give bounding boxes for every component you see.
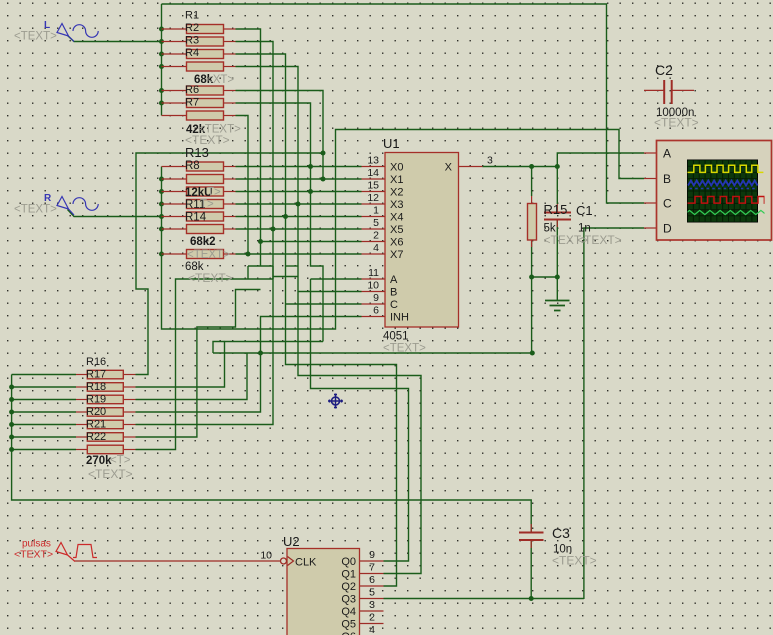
resistor R6 xyxy=(187,99,224,108)
svg-text:<TEXT>: <TEXT> xyxy=(552,554,597,568)
svg-text:X: X xyxy=(445,162,453,174)
pin stub U1 left xyxy=(362,191,386,193)
pin stub U1 left xyxy=(362,228,386,230)
wire ground distribution xyxy=(213,352,532,354)
pin stub bank3 right xyxy=(124,386,136,388)
pin stub U1 left xyxy=(362,178,386,180)
pin stub bank3 left xyxy=(76,449,87,451)
wire bank3 bus row y=387 xyxy=(12,386,76,388)
wire bank2 bus to scope B xyxy=(162,130,645,330)
wire bank3 bus row y=449.5 xyxy=(12,449,76,451)
resistor R3 xyxy=(187,50,224,59)
pin stub U1 X output xyxy=(459,166,483,168)
junction bank3 bus xyxy=(9,435,14,440)
pin stub bank2 left xyxy=(162,191,187,193)
junction (323,153) xyxy=(321,151,326,156)
svg-text:B: B xyxy=(663,172,671,186)
svg-text:14: 14 xyxy=(367,167,379,179)
svg-text:<TEXT>: <TEXT> xyxy=(654,116,699,130)
svg-text:X7: X7 xyxy=(390,249,403,261)
pin stub bank2 left xyxy=(162,253,187,255)
wire top bus to scope C xyxy=(162,4,645,203)
svg-text:R21: R21 xyxy=(86,419,106,431)
svg-text:R13: R13 xyxy=(185,145,209,160)
svg-text:3: 3 xyxy=(487,155,493,167)
resistor R18 xyxy=(87,395,123,404)
pin stub U2 right xyxy=(360,610,384,612)
pin stub bank3 right xyxy=(124,399,136,401)
svg-text:CLK: CLK xyxy=(295,557,317,569)
wire drop 273 xyxy=(272,266,274,279)
svg-text:<TEXT>: <TEXT> xyxy=(88,467,133,481)
junction bank2 bus xyxy=(159,202,164,207)
svg-text:X4: X4 xyxy=(390,212,403,224)
pin stub C2 left xyxy=(644,89,664,91)
svg-text:R3: R3 xyxy=(185,35,199,47)
svg-text:12: 12 xyxy=(367,192,379,204)
resistor R19 xyxy=(87,408,123,417)
junction (285.5,216.5) xyxy=(283,214,288,219)
resistor R22 xyxy=(87,445,123,454)
clock bubble U2 xyxy=(281,558,287,564)
pin stub C3 bottom xyxy=(530,540,532,548)
svg-text:R15: R15 xyxy=(544,202,568,217)
wire R15 bottom xyxy=(531,240,533,277)
junction bank2 bus xyxy=(159,227,164,232)
resistor R16 xyxy=(87,370,123,379)
wire R1 to X6 down to jog xyxy=(236,29,261,266)
junction bank2 bus xyxy=(159,189,164,194)
wire bank1 left bus xyxy=(161,4,163,116)
pin stub C1 top xyxy=(556,204,558,212)
wire pulse generator to U2 CLK xyxy=(75,560,281,562)
junction (531.2,598.5) xyxy=(529,596,534,601)
svg-text:L: L xyxy=(44,20,50,31)
scope trace blue channel B xyxy=(688,181,758,186)
junction (260.5,241.5) xyxy=(258,239,263,244)
svg-text:R18: R18 xyxy=(86,381,106,393)
pin stub bank2 left xyxy=(162,203,187,205)
pin stub bank2 right xyxy=(224,228,236,230)
wire bank3 left bus down to C3 top xyxy=(12,375,532,533)
wire C1 bottom to ground xyxy=(556,220,558,301)
junction (310.5,166.5) xyxy=(308,164,313,169)
junction bank1 bus xyxy=(159,64,164,69)
wire X6 row xyxy=(261,241,362,243)
wire from generator R xyxy=(68,210,162,217)
svg-text:C3: C3 xyxy=(552,525,570,541)
wire R17 along row 341.5 xyxy=(136,342,324,388)
svg-text:R20: R20 xyxy=(86,406,106,418)
pin stub bank2 right xyxy=(224,191,236,193)
capacitor C2 xyxy=(664,80,672,104)
pin stub bank2 left xyxy=(162,216,187,218)
pin stub bank3 right xyxy=(124,449,136,451)
junction bank3 bus xyxy=(9,422,14,427)
junction (260.5,353) xyxy=(258,351,263,356)
pin stub bank3 left xyxy=(76,424,87,426)
junction (531.6,277) xyxy=(529,275,534,280)
pin stub U2 right xyxy=(360,623,384,625)
wire bank2 row to U1 pin y=179 xyxy=(236,178,362,180)
svg-text:X0: X0 xyxy=(390,162,403,174)
svg-text:R: R xyxy=(44,193,52,204)
resistor R4 xyxy=(187,62,224,71)
generator R symbol xyxy=(57,197,74,216)
wire jog X4/X3 staircase xyxy=(286,265,299,267)
pin stub bank3 right xyxy=(124,374,136,376)
svg-text:B: B xyxy=(390,287,397,299)
pin stub R15 bottom xyxy=(531,240,533,247)
svg-text:2: 2 xyxy=(369,612,375,624)
svg-text:270k: 270k xyxy=(86,455,112,467)
svg-text:5: 5 xyxy=(373,217,379,229)
svg-text:R7: R7 xyxy=(185,97,199,109)
wire bank3 bus row y=424.5 xyxy=(12,424,76,426)
scope trace green channel D xyxy=(687,210,769,214)
svg-text:X6: X6 xyxy=(390,237,403,249)
svg-text:13: 13 xyxy=(367,155,379,167)
wire A row xyxy=(311,278,362,280)
svg-text:C1: C1 xyxy=(576,203,593,218)
svg-text:R19: R19 xyxy=(86,394,106,406)
svg-text:Q4: Q4 xyxy=(341,606,356,618)
svg-text:Q0: Q0 xyxy=(341,556,356,568)
svg-text:<T>: <T> xyxy=(110,455,131,467)
svg-text:R1: R1 xyxy=(185,10,199,22)
svg-text:5: 5 xyxy=(369,587,375,599)
pin stub U1 left xyxy=(362,291,386,293)
svg-text:Q2: Q2 xyxy=(341,581,356,593)
svg-text:R8: R8 xyxy=(185,160,200,172)
svg-text:C: C xyxy=(390,299,398,311)
svg-text:<TEXT>: <TEXT> xyxy=(187,249,230,261)
junction (248,254) xyxy=(246,252,251,257)
wire bank2 row to U1 pin y=191.5 xyxy=(236,191,362,193)
svg-text:11: 11 xyxy=(368,267,379,279)
pin stub bank3 left xyxy=(76,386,87,388)
pin stub bank3 right xyxy=(124,424,136,426)
svg-text:X1: X1 xyxy=(390,174,403,186)
svg-text:7: 7 xyxy=(369,562,375,574)
pin stub U1 left xyxy=(362,241,386,243)
svg-text:C: C xyxy=(663,197,672,211)
svg-text:T>: T> xyxy=(207,187,221,199)
pin stub U2 right xyxy=(360,573,384,575)
svg-text:<TEXT>: <TEXT> xyxy=(14,31,57,43)
svg-text:68k2: 68k2 xyxy=(190,236,216,248)
pin stub R7 right xyxy=(224,115,236,117)
pin stub U1 left xyxy=(362,216,386,218)
pin stub U1 left xyxy=(362,303,386,305)
resistor R17 xyxy=(87,383,123,392)
svg-text:R16: R16 xyxy=(86,356,106,368)
svg-text:3: 3 xyxy=(369,599,375,611)
oscilloscope body xyxy=(657,141,772,241)
pin stub R3 right xyxy=(224,53,236,55)
wire bank3 bus row y=437 xyxy=(12,436,76,438)
svg-text:2: 2 xyxy=(373,230,379,242)
op-amp U1 4051 body xyxy=(385,153,459,328)
pin stub scope xyxy=(644,152,657,154)
pin stub R3 left xyxy=(162,53,187,55)
resistor R21 xyxy=(87,433,123,442)
svg-text:9: 9 xyxy=(369,549,375,561)
pin stub R7 left xyxy=(162,115,187,117)
wire bank1 bottom to X7 xyxy=(236,116,249,255)
svg-text:<TEXT>: <TEXT> xyxy=(14,204,57,216)
svg-text:R22: R22 xyxy=(86,431,106,443)
pin stub bank2 right xyxy=(224,253,236,255)
resistor R14 xyxy=(187,212,224,221)
svg-text:6: 6 xyxy=(369,574,375,586)
svg-text:<TEXT>: <TEXT> xyxy=(188,271,233,285)
svg-text:Q5: Q5 xyxy=(341,619,356,631)
ground xyxy=(545,301,570,311)
junction bank1 bus xyxy=(159,88,164,93)
wire bank2 row to U1 pin y=166.5 xyxy=(236,166,362,168)
resistor R15 body xyxy=(528,204,537,241)
pin stub U1 left xyxy=(362,316,386,318)
wire drop 248 xyxy=(247,266,249,279)
wire to R15 top xyxy=(531,167,533,197)
pin stub R5 right xyxy=(224,90,236,92)
junction (531.6,166.5) xyxy=(529,164,534,169)
wire bank2 row to U1 pin y=229 xyxy=(236,228,362,230)
wire to C1 top xyxy=(556,167,558,205)
wire R15/C1 bottom join xyxy=(532,276,558,278)
pin stub scope xyxy=(644,178,657,180)
wire bank2 row to U1 pin y=204 xyxy=(236,203,362,205)
wire R21 staircase up xyxy=(136,290,261,438)
wire row 279 to R22 ground net xyxy=(136,279,274,450)
pin stub C1 bottom xyxy=(556,220,558,228)
junction (557.3,166.5) xyxy=(555,164,560,169)
pin stub bank3 left xyxy=(76,411,87,413)
counter U2 body xyxy=(287,549,360,635)
resistor R1 xyxy=(187,25,224,34)
pin stub bank2 right xyxy=(224,216,236,218)
wire R19 up to ground wire xyxy=(136,353,261,412)
wire U1 X output node xyxy=(483,166,558,168)
wire B row xyxy=(298,291,362,293)
junction bank2 bus xyxy=(159,214,164,219)
pin stub bank2 left xyxy=(162,166,187,168)
resistor R13 xyxy=(187,250,224,259)
svg-text:4: 4 xyxy=(369,624,375,635)
svg-text:T>: T> xyxy=(200,199,214,211)
wire R6 to X1 xyxy=(236,91,324,180)
wire INH row down to ground wire xyxy=(261,317,362,354)
resistor R9 xyxy=(187,175,224,184)
generator L symbol xyxy=(57,24,74,42)
svg-text:4: 4 xyxy=(373,242,379,254)
pin stub U1 left xyxy=(362,203,386,205)
resistor R12 xyxy=(187,225,224,234)
pin stub R15 top xyxy=(531,196,533,204)
wire scope D down to C3 bottom xyxy=(584,228,644,599)
svg-text:Q6: Q6 xyxy=(341,631,356,635)
resistor R8 xyxy=(187,162,224,171)
svg-text:10: 10 xyxy=(367,280,379,292)
cursor crosshair xyxy=(328,394,343,409)
wire U2 Q3 row xyxy=(384,598,584,600)
svg-text:X2: X2 xyxy=(390,187,403,199)
junction (323,179) xyxy=(321,177,326,182)
pin stub bank3 right xyxy=(124,436,136,438)
resistor R2 xyxy=(187,37,224,46)
pin stub C3 top xyxy=(530,524,532,533)
capacitor C1 xyxy=(544,213,571,220)
junction bank1 bus xyxy=(159,27,164,32)
wire bank3 bus row y=399.5 xyxy=(12,399,76,401)
junction bank3 bus xyxy=(9,447,14,452)
pin stub bank2 right xyxy=(224,203,236,205)
pin stub bank2 right xyxy=(224,178,236,180)
junction bank1 bus xyxy=(159,101,164,106)
svg-text:Q3: Q3 xyxy=(341,594,356,606)
resistor R7 xyxy=(187,111,224,120)
svg-text:Q1: Q1 xyxy=(341,569,356,581)
wire jog row 276.5 xyxy=(273,276,298,278)
pin stub R2 left xyxy=(162,41,187,43)
svg-text:4051: 4051 xyxy=(383,331,409,343)
resistor R5 xyxy=(187,86,224,95)
wire R2 to X5 and R20 xyxy=(136,42,274,425)
pin stub bank2 left xyxy=(162,228,187,230)
wire R4 to X3, B select, U2 Q1 xyxy=(236,67,422,574)
pin stub bank2 left xyxy=(162,178,187,180)
capacitor C3 xyxy=(519,533,544,541)
wire down to ground wire xyxy=(531,277,533,353)
pin stub bank3 left xyxy=(76,436,87,438)
svg-text:U1: U1 xyxy=(383,136,400,151)
pin stub bank2 right xyxy=(224,166,236,168)
junction (557.3,277) xyxy=(555,275,560,280)
pin stub R1 left xyxy=(162,28,187,30)
svg-text:<XT>: <XT> xyxy=(206,74,234,86)
junction (273,229) xyxy=(271,227,276,232)
junction bank2 bus xyxy=(159,252,164,257)
pin stub C2 right xyxy=(672,89,694,91)
svg-text:A: A xyxy=(663,147,671,161)
pin stub bank3 left xyxy=(76,399,87,401)
wire A select down to U2 Q0 xyxy=(311,279,409,561)
pin stub bank3 left xyxy=(76,374,87,376)
pin stub U2 right xyxy=(360,598,384,600)
svg-text:D: D xyxy=(663,222,672,236)
svg-text:X5: X5 xyxy=(390,224,403,236)
svg-text:<TEXT>: <TEXT> xyxy=(383,343,426,355)
resistor R11 xyxy=(187,200,224,209)
wire C row xyxy=(286,303,362,305)
svg-text:<TEXT>: <TEXT> xyxy=(14,549,53,561)
junction bank3 bus xyxy=(9,385,14,390)
wire bank2 row to U1 pin y=254 xyxy=(236,253,362,255)
wire ground left jog xyxy=(213,342,225,354)
wire R3 to X4, C select, U2 Q2 xyxy=(236,54,397,586)
pin stub R4 left xyxy=(162,66,187,68)
svg-text:15: 15 xyxy=(367,180,379,192)
pin stub bank3 right xyxy=(124,411,136,413)
pin stub R5 left xyxy=(162,90,187,92)
pin stub R1 right xyxy=(224,28,236,30)
pin stub U1 left xyxy=(362,166,386,168)
wire X1 net to R16 xyxy=(136,153,324,375)
svg-text:R14: R14 xyxy=(185,212,207,224)
resistor R10 xyxy=(187,187,224,196)
pin stub R2 right xyxy=(224,41,236,43)
svg-text:10: 10 xyxy=(260,550,272,562)
junction (298,204) xyxy=(296,202,301,207)
wire jog row 266 left xyxy=(248,265,273,267)
wire R7 to X0/X2 down to row 341.5 xyxy=(236,103,324,342)
junction bank3 bus xyxy=(9,397,14,402)
svg-text:9: 9 xyxy=(373,292,379,304)
svg-text:1: 1 xyxy=(373,205,379,217)
wire X output to scope A xyxy=(557,153,644,167)
junction bank1 bus xyxy=(159,39,164,44)
wire C3 bottom xyxy=(530,540,532,599)
svg-text:6: 6 xyxy=(373,305,379,317)
wire bank3 bus row y=412 xyxy=(12,411,76,413)
scope trace red channel C xyxy=(687,197,773,204)
junction (532.3,353) xyxy=(530,351,535,356)
oscilloscope screen xyxy=(688,160,758,222)
svg-text:INH: INH xyxy=(390,312,409,324)
svg-text:C2: C2 xyxy=(655,62,673,78)
svg-text:X3: X3 xyxy=(390,199,403,211)
wire R18 up to ground wire xyxy=(136,353,248,400)
pin stub U1 left xyxy=(362,253,386,255)
pin stub U2 right xyxy=(360,585,384,587)
pin stub U2 right xyxy=(360,560,384,562)
svg-text:R17: R17 xyxy=(86,369,106,381)
pin stub R6 left xyxy=(162,102,187,104)
generator pulse symbol xyxy=(56,543,75,562)
svg-text:U2: U2 xyxy=(283,534,300,549)
scope trace yellow channel A xyxy=(687,165,763,172)
pin stub scope xyxy=(644,227,657,229)
pin stub R4 right xyxy=(224,66,236,68)
junction bank3 bus xyxy=(9,410,14,415)
pin stub U1 left xyxy=(362,278,386,280)
pin stub R6 right xyxy=(224,102,236,104)
wire from generator L xyxy=(68,36,162,42)
clock wedge U2 xyxy=(288,557,294,566)
junction (310.5,191.5) xyxy=(308,189,313,194)
svg-text:R4: R4 xyxy=(185,47,199,59)
pin stub scope xyxy=(644,202,657,204)
junction bank1 bus xyxy=(159,52,164,57)
resistor R20 xyxy=(87,420,123,429)
svg-text:R2: R2 xyxy=(185,22,199,34)
svg-text:A: A xyxy=(390,274,398,286)
wire bank2 row to U1 pin y=216.5 xyxy=(236,216,362,218)
wire bank3 bus row y=374.5 xyxy=(12,374,76,376)
junction bank2 bus xyxy=(159,177,164,182)
svg-text:<TEXT>: <TEXT> xyxy=(577,233,622,247)
